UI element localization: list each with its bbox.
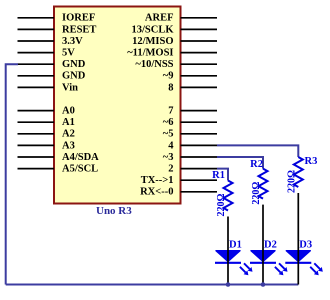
svg-text:IOREF: IOREF [62, 13, 95, 24]
svg-text:A5/SCL: A5/SCL [62, 164, 98, 175]
svg-text:Uno R3: Uno R3 [96, 205, 132, 217]
wire R2 to D2 to bus [262, 205, 264, 285]
pin 12/MISO [181, 40, 218, 42]
resistor R3 [294, 157, 303, 187]
svg-text:RX<--0: RX<--0 [140, 187, 173, 198]
pin RX0 [181, 191, 218, 193]
svg-text:13/SCLK: 13/SCLK [131, 24, 174, 35]
pin 5V [18, 52, 55, 54]
svg-text:AREF: AREF [145, 13, 174, 24]
svg-text:D3: D3 [299, 240, 312, 251]
pin A2 [18, 133, 55, 135]
pin 3 [181, 156, 218, 158]
pin GND2 [18, 75, 55, 77]
svg-text:D1: D1 [229, 240, 242, 251]
junction node D2/bus [261, 282, 266, 287]
svg-text:220Ω: 220Ω [251, 182, 262, 205]
pin IOREF [18, 17, 55, 19]
svg-text:A3: A3 [62, 140, 75, 151]
pin RESET [18, 28, 55, 30]
svg-text:R2: R2 [250, 159, 263, 170]
svg-text:7: 7 [168, 106, 173, 117]
svg-text:Vin: Vin [62, 82, 78, 93]
wire pin 2 to R1 [217, 169, 228, 181]
wire GND to ground bus [6, 64, 18, 284]
svg-text:~10/NSS: ~10/NSS [135, 59, 173, 70]
pin 6 [181, 121, 218, 123]
pin A0 [18, 110, 55, 112]
svg-text:R3: R3 [305, 156, 318, 167]
svg-text:4: 4 [168, 140, 174, 151]
wire pin 4 to R3 [217, 145, 298, 157]
LED D1 [215, 251, 253, 276]
svg-text:220Ω: 220Ω [216, 193, 227, 216]
pin 4 [181, 144, 218, 146]
pin 7 [181, 110, 218, 112]
svg-text:2: 2 [168, 164, 173, 175]
pin 13/SCLK [181, 28, 218, 30]
svg-text:TX-->1: TX-->1 [141, 175, 174, 186]
pin 11/MOSI [181, 52, 218, 54]
svg-text:A1: A1 [62, 117, 75, 128]
wire R3 to D3 to bus [297, 193, 299, 285]
svg-text:5V: 5V [62, 48, 75, 59]
svg-text:A2: A2 [62, 129, 75, 140]
pin TX1 [181, 179, 218, 181]
pin 2 [181, 168, 218, 170]
svg-text:D2: D2 [264, 240, 277, 251]
svg-text:3.3V: 3.3V [62, 36, 83, 47]
pin Vin [18, 86, 55, 88]
svg-text:~9: ~9 [163, 71, 174, 82]
svg-text:8: 8 [168, 82, 173, 93]
pin 3.3V [18, 40, 55, 42]
svg-text:A0: A0 [62, 106, 75, 117]
resistor R1 [224, 181, 233, 211]
pin GND1 [18, 63, 55, 65]
resistor R2 [259, 169, 268, 199]
wire R1 to D1 to bus [227, 217, 229, 285]
pin A4/SDA [18, 156, 55, 158]
svg-text:~6: ~6 [163, 117, 174, 128]
LED D3 [285, 251, 323, 276]
pin A3 [18, 144, 55, 146]
pin 8 [181, 86, 218, 88]
svg-text:220Ω: 220Ω [286, 170, 297, 193]
pin A1 [18, 121, 55, 123]
wire ground bus [6, 284, 299, 286]
svg-text:RESET: RESET [62, 24, 96, 35]
pin 10/NSS [181, 63, 218, 65]
svg-text:A4/SDA: A4/SDA [62, 152, 99, 163]
svg-text:~3: ~3 [163, 152, 174, 163]
svg-text:12/MISO: 12/MISO [132, 36, 173, 47]
pin 5 [181, 133, 218, 135]
svg-text:R1: R1 [212, 170, 225, 181]
pin A5/SCL [18, 168, 55, 170]
svg-text:~5: ~5 [163, 129, 174, 140]
svg-text:GND: GND [62, 59, 86, 70]
svg-text:GND: GND [62, 71, 86, 82]
IC U1 Arduino Uno R3 body [54, 7, 181, 204]
pin 9 [181, 75, 218, 77]
LED D2 [250, 251, 288, 276]
junction node D1/bus [226, 282, 231, 287]
wire pin 3 to R2 [217, 157, 263, 169]
pin AREF [181, 17, 218, 19]
svg-text:~11/MOSI: ~11/MOSI [127, 48, 173, 59]
